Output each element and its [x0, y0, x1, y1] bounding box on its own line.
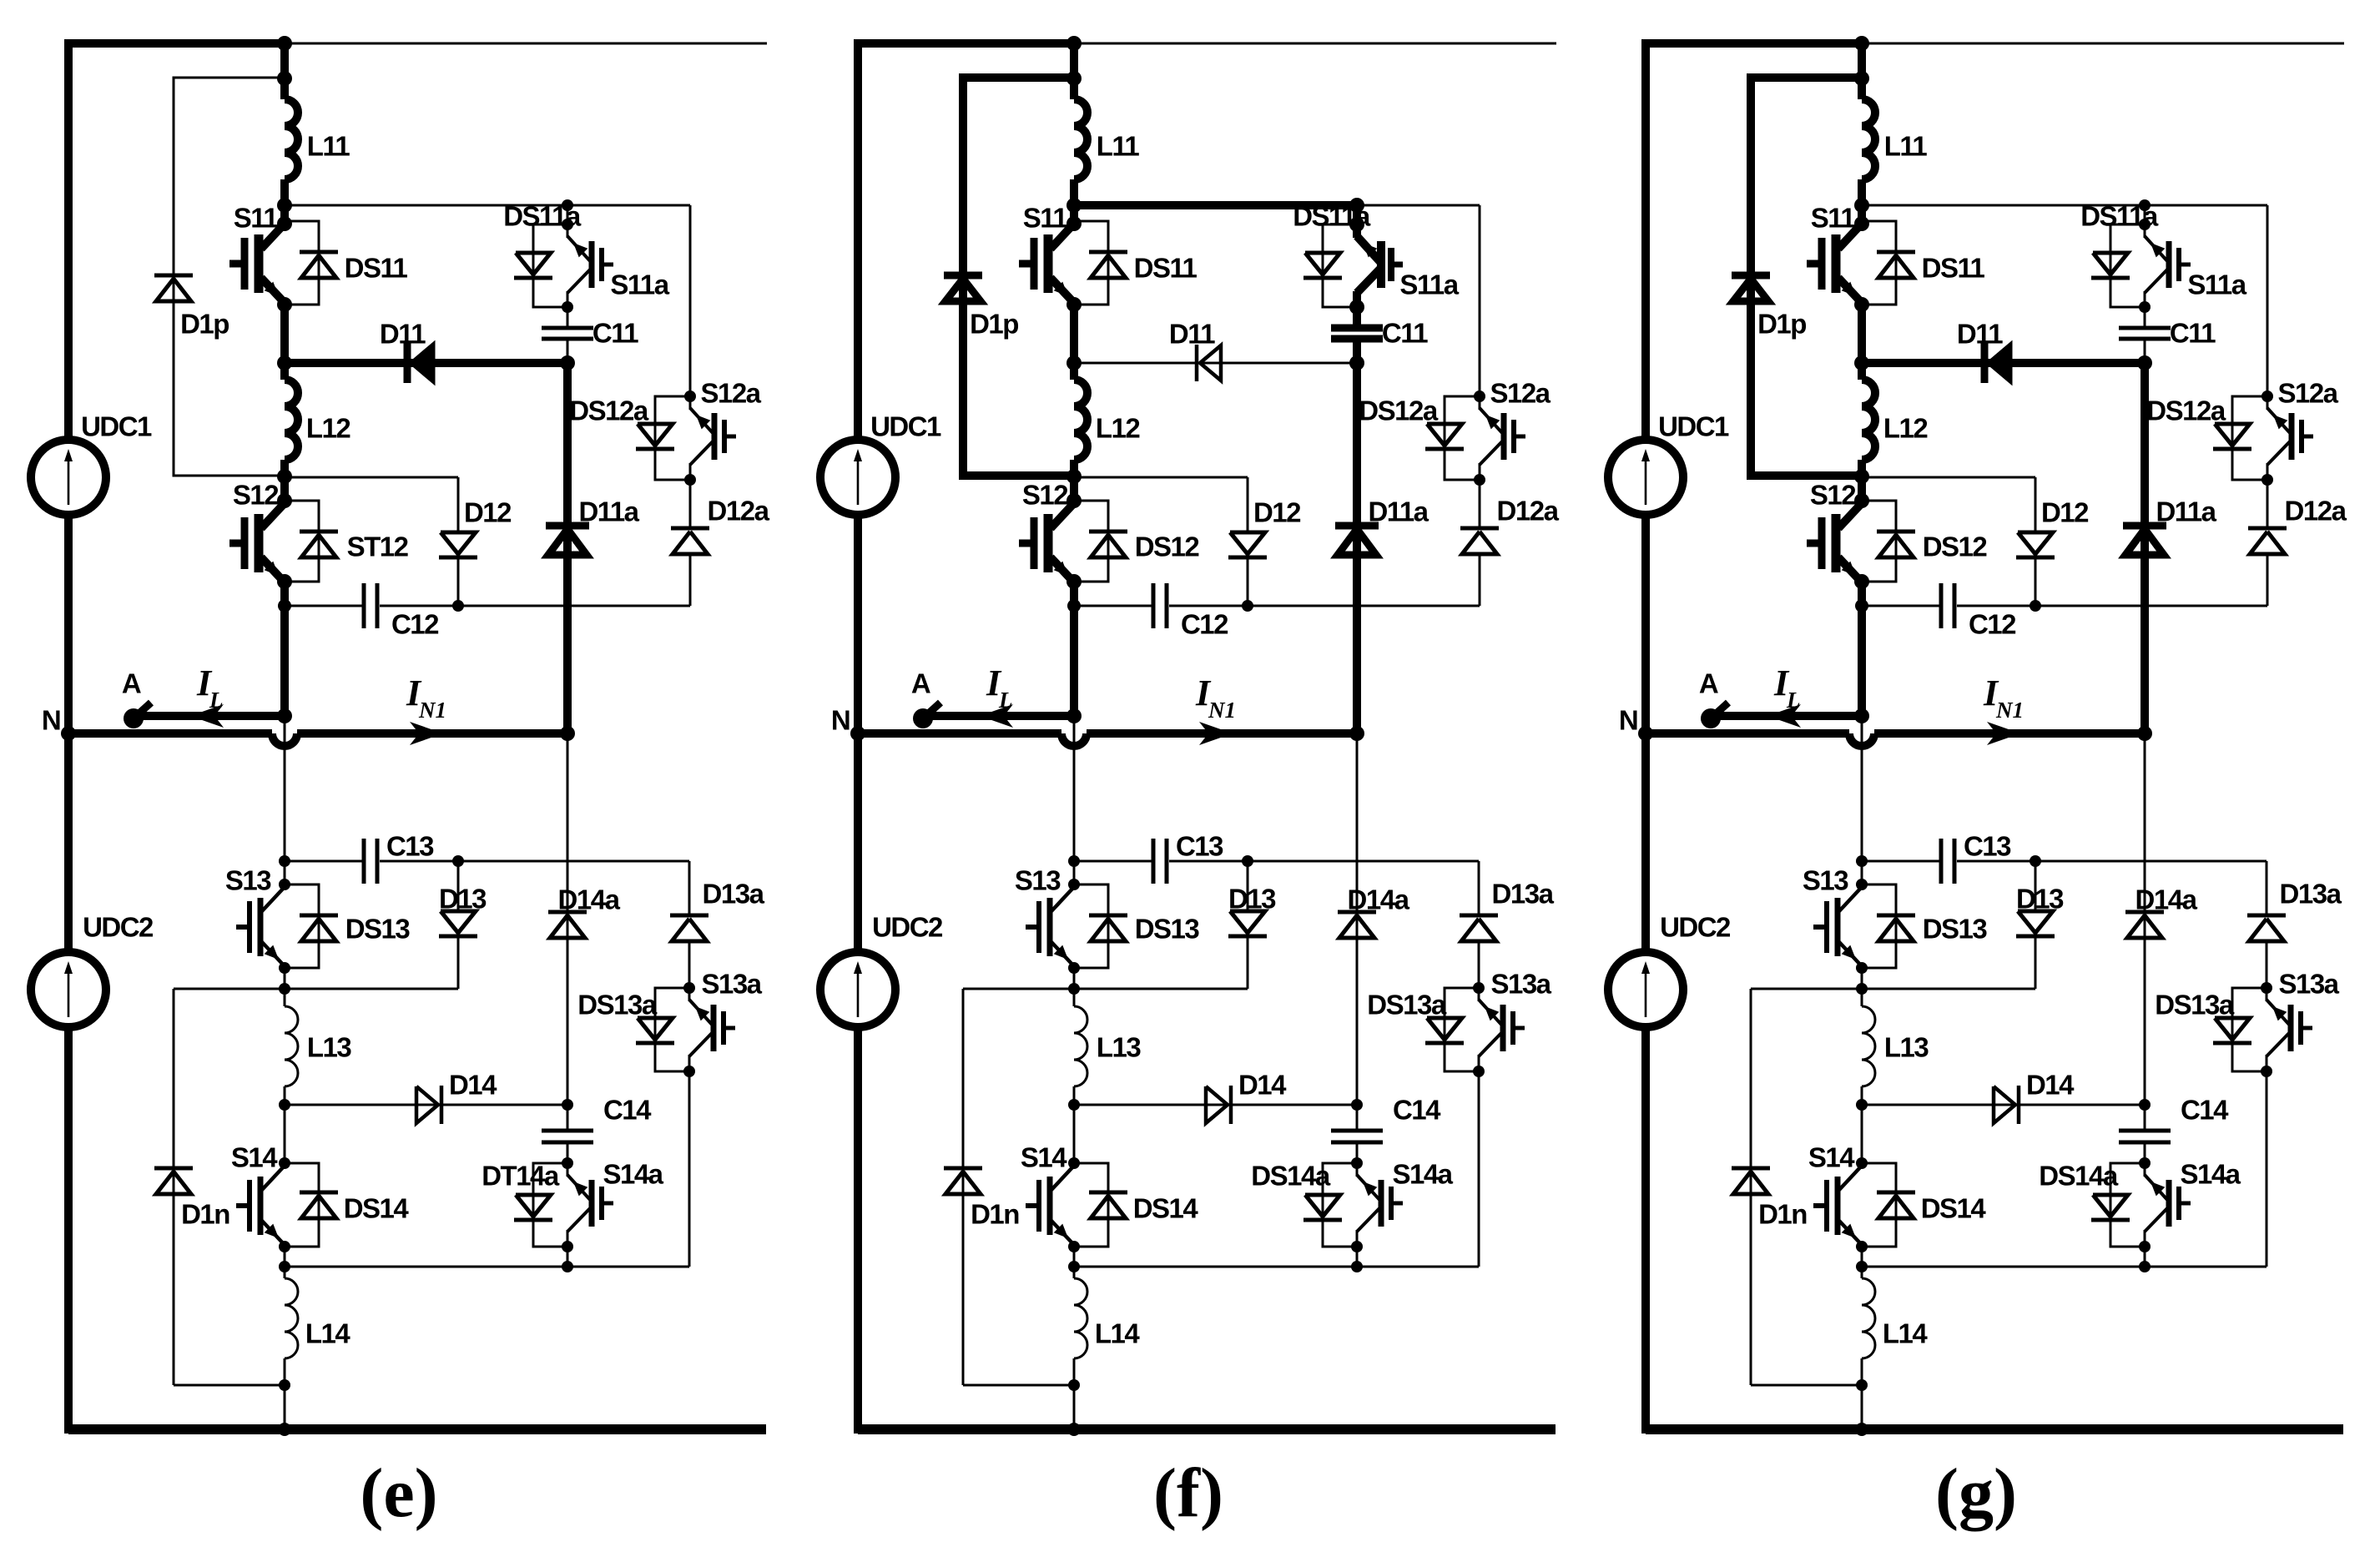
svg-text:UDC2: UDC2 [83, 912, 154, 943]
svg-text:DS12a: DS12a [569, 396, 649, 426]
svg-text:D12a: D12a [2285, 496, 2347, 527]
svg-text:D13: D13 [2016, 884, 2064, 915]
svg-text:S11a: S11a [610, 270, 669, 300]
svg-text:S13a: S13a [1490, 969, 1551, 1000]
svg-text:D12: D12 [464, 497, 512, 528]
svg-text:S13a: S13a [701, 969, 762, 1000]
svg-text:C13: C13 [386, 831, 434, 862]
svg-text:D11a: D11a [578, 496, 639, 527]
svg-text:UDC1: UDC1 [1658, 411, 1729, 442]
svg-text:C12: C12 [1969, 609, 2016, 640]
svg-text:DS12a: DS12a [2146, 396, 2226, 426]
svg-text:D14a: D14a [1348, 884, 1410, 915]
svg-text:DS11: DS11 [1922, 253, 1985, 284]
svg-text:DS13: DS13 [1923, 914, 1988, 945]
svg-text:S11a: S11a [1399, 270, 1459, 300]
svg-text:C11: C11 [1382, 318, 1428, 349]
svg-text:DS13: DS13 [1135, 914, 1200, 945]
svg-text:D12: D12 [2041, 497, 2089, 528]
svg-text:S13: S13 [225, 865, 271, 896]
svg-text:DS13: DS13 [345, 914, 411, 945]
svg-text:L14: L14 [1095, 1318, 1141, 1349]
svg-text:S11a: S11a [2187, 270, 2246, 300]
svg-text:S12: S12 [1810, 480, 1856, 511]
svg-text:N: N [831, 705, 850, 736]
svg-text:DS13a: DS13a [1367, 990, 1447, 1020]
svg-text:C11: C11 [2170, 318, 2216, 349]
svg-text:D1n: D1n [1758, 1199, 1807, 1230]
svg-text:N: N [42, 705, 60, 736]
svg-text:DS12: DS12 [1135, 532, 1200, 562]
svg-text:S14: S14 [1021, 1142, 1067, 1173]
svg-text:DS14: DS14 [1133, 1193, 1199, 1224]
svg-text:L14: L14 [1883, 1318, 1929, 1349]
svg-text:N: N [1619, 705, 1637, 736]
svg-text:S11: S11 [1811, 203, 1856, 234]
svg-text:S13: S13 [1803, 865, 1848, 896]
svg-text:L14: L14 [305, 1318, 351, 1349]
svg-text:D13a: D13a [703, 879, 765, 910]
svg-text:S12a: S12a [1490, 378, 1551, 409]
svg-text:DS11a: DS11a [503, 201, 582, 232]
svg-text:D14: D14 [1238, 1070, 1287, 1101]
svg-text:DS12: DS12 [1923, 532, 1988, 562]
svg-text:L11: L11 [1884, 131, 1928, 162]
svg-text:S11: S11 [234, 203, 279, 234]
svg-text:L13: L13 [1884, 1032, 1929, 1063]
svg-text:L11: L11 [1097, 131, 1140, 162]
svg-text:DS11: DS11 [1134, 253, 1198, 284]
svg-text:(g): (g) [1935, 1454, 2017, 1532]
svg-text:DS14a: DS14a [2039, 1161, 2119, 1192]
svg-text:A: A [911, 668, 930, 699]
svg-text:L: L [998, 688, 1013, 713]
svg-text:D11a: D11a [1368, 496, 1429, 527]
svg-text:DS13a: DS13a [577, 990, 658, 1020]
svg-text:UDC1: UDC1 [81, 411, 152, 442]
svg-text:D11a: D11a [2156, 496, 2216, 527]
svg-text:C12: C12 [1181, 609, 1228, 640]
svg-text:DS13a: DS13a [2155, 990, 2235, 1020]
svg-text:N1: N1 [1208, 698, 1236, 723]
svg-text:S14a: S14a [603, 1159, 663, 1190]
svg-text:DS11a: DS11a [1293, 201, 1371, 232]
svg-text:DS11a: DS11a [2080, 201, 2159, 232]
svg-text:S12: S12 [233, 480, 279, 511]
svg-text:DT14a: DT14a [482, 1161, 560, 1192]
svg-text:(f): (f) [1153, 1454, 1223, 1532]
svg-text:S11: S11 [1023, 203, 1068, 234]
svg-text:L13: L13 [1097, 1032, 1142, 1063]
svg-text:L12: L12 [306, 413, 351, 444]
svg-text:D1p: D1p [1757, 309, 1806, 340]
svg-text:DS14a: DS14a [1251, 1161, 1331, 1192]
svg-text:S14: S14 [1808, 1142, 1855, 1173]
svg-text:L: L [209, 688, 224, 713]
svg-text:C14: C14 [2181, 1095, 2229, 1126]
svg-text:D13a: D13a [1492, 879, 1555, 910]
svg-text:DS12a: DS12a [1359, 396, 1439, 426]
svg-text:D12a: D12a [1497, 496, 1560, 527]
svg-text:S13: S13 [1015, 865, 1061, 896]
svg-text:DS11: DS11 [345, 253, 408, 284]
svg-text:D12: D12 [1253, 497, 1301, 528]
svg-text:D1p: D1p [180, 309, 229, 340]
svg-text:L11: L11 [307, 131, 350, 162]
svg-text:S14a: S14a [1392, 1159, 1453, 1190]
svg-text:D13: D13 [439, 884, 487, 915]
svg-text:D12a: D12a [708, 496, 770, 527]
svg-text:D1n: D1n [971, 1199, 1019, 1230]
svg-text:S12a: S12a [2277, 378, 2338, 409]
svg-text:D13: D13 [1228, 884, 1276, 915]
svg-text:S13a: S13a [2278, 969, 2339, 1000]
svg-text:ST12: ST12 [347, 532, 409, 562]
svg-text:D14a: D14a [2135, 884, 2198, 915]
svg-text:L12: L12 [1883, 413, 1929, 444]
svg-text:UDC1: UDC1 [870, 411, 941, 442]
svg-text:D13a: D13a [2280, 879, 2342, 910]
svg-text:S12a: S12a [700, 378, 761, 409]
svg-text:S14: S14 [231, 1142, 278, 1173]
svg-text:S14a: S14a [2180, 1159, 2241, 1190]
svg-text:L: L [1786, 688, 1801, 713]
svg-text:D11: D11 [1957, 319, 2003, 350]
svg-text:DS14: DS14 [344, 1193, 410, 1224]
svg-text:UDC2: UDC2 [1660, 912, 1731, 943]
svg-text:C13: C13 [1176, 831, 1223, 862]
svg-text:C14: C14 [1393, 1095, 1441, 1126]
svg-text:C13: C13 [1964, 831, 2011, 862]
svg-text:D14: D14 [2026, 1070, 2075, 1101]
svg-text:D14: D14 [449, 1070, 497, 1101]
svg-text:C12: C12 [391, 609, 439, 640]
svg-text:C11: C11 [592, 318, 638, 349]
svg-text:N1: N1 [418, 698, 446, 723]
svg-text:D1n: D1n [181, 1199, 229, 1230]
svg-text:N1: N1 [1995, 698, 2024, 723]
svg-text:D14a: D14a [558, 884, 621, 915]
svg-text:S12: S12 [1022, 480, 1068, 511]
svg-text:DS14: DS14 [1921, 1193, 1987, 1224]
svg-text:D11: D11 [1169, 319, 1215, 350]
svg-text:L12: L12 [1096, 413, 1141, 444]
svg-text:UDC2: UDC2 [872, 912, 943, 943]
svg-text:D11: D11 [380, 319, 426, 350]
svg-text:A: A [1699, 668, 1718, 699]
svg-text:A: A [122, 668, 141, 699]
svg-text:C14: C14 [603, 1095, 652, 1126]
svg-text:(e): (e) [360, 1454, 437, 1532]
svg-text:L13: L13 [307, 1032, 352, 1063]
svg-text:D1p: D1p [970, 309, 1018, 340]
